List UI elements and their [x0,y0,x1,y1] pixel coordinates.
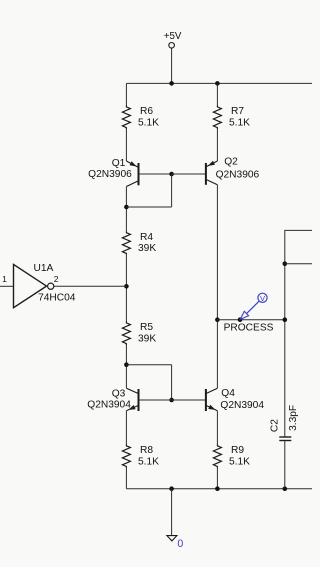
wire base tie vertical [171,174,173,207]
svg-text:R5: R5 [140,322,153,333]
transistor Q4 Q2N3904 (NPN) [206,388,264,411]
wire Q4 emitter to R9 [216,411,218,445]
wire Q4 base [172,399,206,401]
resistor R9 [213,444,250,468]
wire R9 to bottom bus [216,468,218,489]
svg-text:Q4: Q4 [221,388,235,399]
svg-text:Q2N3904: Q2N3904 [87,400,131,411]
transistor Q1 Q2N3906 (PNP) [88,158,138,187]
power symbol +5V [164,31,182,84]
svg-text:R9: R9 [231,445,244,456]
node junction PROCESS left [215,317,220,322]
wire base tie horizontal [126,206,171,208]
wire base tie to Q2 base [172,173,206,175]
resistor R7 [213,106,250,130]
node junction Q1 collector tie [124,205,129,210]
wire R5 to Q3 collector [125,345,127,388]
svg-text:Q2N3904: Q2N3904 [220,400,264,411]
node junction R5 bottom [124,362,129,367]
svg-text:74HC04: 74HC04 [38,293,76,304]
svg-text:R6: R6 [140,106,153,117]
svg-text:C2: C2 [270,419,281,432]
svg-text:PROCESS: PROCESS [224,323,274,334]
wire Q1 collector down [125,187,127,232]
inverter U1A 74HC04 with pins 1,2 [0,263,126,308]
node junction PROCESS right [283,317,288,322]
resistor R8 [122,444,159,468]
wire base tie vertical lower [171,365,173,400]
svg-text:5.1K: 5.1K [138,456,159,467]
resistor R4 [122,231,156,254]
svg-text:39K: 39K [138,333,156,344]
wire bus corner down to R6 [125,83,127,105]
wire PROCESS [217,319,284,321]
wire PROCESS node down to Q4 collector [216,320,218,389]
node junction C2 bottom [283,486,288,491]
wire bottom ground bus [126,488,312,490]
transistor Q3 Q2N3904 (NPN) [87,388,138,411]
wire R6 to Q1 emitter [125,129,127,161]
wire R7 to Q2 emitter [216,129,218,161]
node junction R7 column on bus [215,81,220,86]
svg-text:Q2N3906: Q2N3906 [88,169,132,180]
node junction Q3/Q4 base tie [169,398,174,403]
svg-text:0: 0 [177,538,183,550]
resistor R5 [122,322,156,346]
node junction right stub [283,261,288,266]
svg-text:Q1: Q1 [112,158,126,169]
wire Q2 collector down to PROCESS [216,185,218,320]
svg-text:+5V: +5V [164,31,182,42]
resistor R6 [122,106,159,130]
svg-text:R8: R8 [140,445,153,456]
wire Q3 base [139,399,172,401]
node junction +5V stem on bus [169,81,174,86]
wire Q3 emitter to R8 [125,411,127,445]
svg-text:3.3pF: 3.3pF [288,405,299,431]
wire bus to R7 [216,83,218,105]
node junction R9 bottom [215,486,220,491]
svg-text:Q3: Q3 [112,389,126,400]
wire top supply bus [126,82,312,84]
node junction ground stem [169,486,174,491]
wire right stub [285,263,312,265]
svg-text:5.1K: 5.1K [229,456,250,467]
svg-text:R7: R7 [231,106,244,117]
svg-text:5.1K: 5.1K [138,117,159,128]
node junction probe attach [238,317,243,322]
svg-text:Q2: Q2 [224,157,238,168]
wire R8 to bottom bus [125,468,127,489]
svg-text:U1A: U1A [34,263,54,274]
node junction inverter output [124,284,129,289]
svg-text:Q2N3906: Q2N3906 [216,169,260,180]
voltage probe V on PROCESS [240,293,267,319]
svg-text:1: 1 [2,274,7,284]
svg-text:39K: 39K [138,243,156,254]
wire R4 to mid node [125,255,127,322]
capacitor C2 3.3pF [270,405,299,489]
wire R5 node to base tie horizontal [126,364,171,366]
node junction Q1/Q2 base tie [169,172,174,177]
svg-text:2: 2 [54,274,59,284]
wire right column top corner [285,230,312,437]
svg-text:5.1K: 5.1K [229,117,250,128]
wire Q1 base to node [139,173,172,175]
transistor Q2 Q2N3906 (PNP) [206,157,260,185]
ground 0 [167,489,184,550]
svg-text:R4: R4 [140,232,153,243]
